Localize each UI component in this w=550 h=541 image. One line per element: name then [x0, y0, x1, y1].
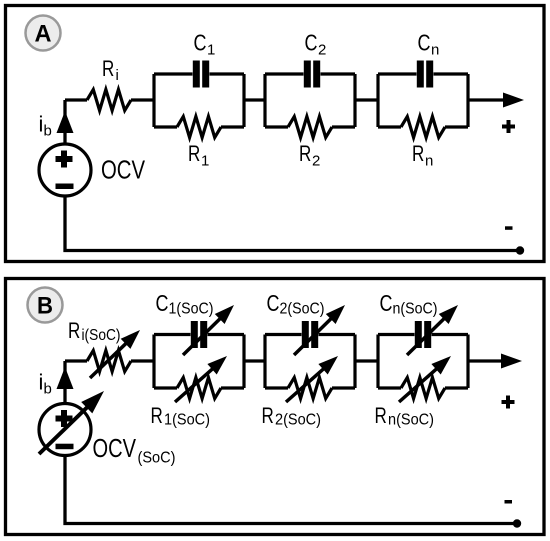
label R2(SoC): [262, 403, 322, 429]
wire OCV bottom return (B): [65, 456, 517, 524]
svg-text:2(SoC): 2(SoC): [275, 412, 321, 429]
label C2(SoC): [267, 290, 325, 318]
resistor R1(SoC): [177, 378, 221, 399]
output wire positive terminal (A): [468, 98, 505, 101]
label Rn(SoC): [375, 403, 435, 429]
variable arrow through R1(SoC): [175, 356, 227, 402]
svg-text:b: b: [44, 123, 52, 140]
resistor Rn: [401, 117, 445, 138]
svg-text:R: R: [412, 141, 424, 166]
current arrow ib (B): [57, 367, 74, 389]
svg-text:R: R: [68, 318, 80, 343]
RC block n loop (panel B): [378, 335, 468, 389]
wire Ri(SoC) to RC block 1 (B): [131, 359, 154, 362]
wire OCV top to node: [63, 100, 66, 144]
svg-text:1(SoC): 1(SoC): [164, 412, 210, 429]
svg-text:1: 1: [201, 152, 209, 169]
resistor R2: [288, 117, 332, 138]
output wire positive terminal (B): [468, 359, 503, 362]
svg-text:R: R: [102, 56, 114, 81]
RC block 1 loop (panel B): [154, 335, 244, 389]
minus terminal label (A): [505, 226, 513, 230]
node dot negative terminal (A): [516, 246, 524, 254]
capacitor C2(SoC): [302, 321, 318, 348]
variable arrow through Ri(SoC): [90, 330, 140, 378]
svg-text:C: C: [194, 30, 207, 56]
minus terminal label (B): [505, 500, 513, 504]
wire OCV bottom return (A): [65, 196, 520, 251]
resistor Ri: [87, 90, 131, 111]
svg-text:R: R: [375, 403, 387, 428]
label OCV(SoC): [93, 433, 176, 467]
voltage source OCV: [39, 144, 91, 196]
panel label B badge: [28, 288, 63, 323]
resistor Ri(SoC): [87, 351, 131, 372]
wire block2 to blockn (B): [355, 359, 378, 362]
current arrow ib: [57, 111, 74, 133]
label C1: [194, 30, 216, 59]
svg-text:B: B: [37, 293, 53, 320]
wire Ri to RC block 1: [131, 98, 154, 101]
svg-text:(SoC): (SoC): [138, 450, 176, 467]
RC block n loop (panel A): [378, 74, 468, 127]
svg-text:n(SoC): n(SoC): [388, 412, 434, 429]
variable arrow through OCV(SoC): [39, 391, 104, 454]
RC block 2 loop (panel A): [265, 74, 355, 127]
label R1: [188, 141, 209, 169]
svg-text:i: i: [116, 67, 119, 84]
variable arrow through Rn(SoC): [399, 356, 451, 402]
svg-text:C: C: [305, 30, 318, 56]
label Cn(SoC): [380, 290, 438, 318]
svg-text:2(SoC): 2(SoC): [280, 301, 325, 318]
svg-text:R: R: [262, 403, 274, 428]
svg-text:n: n: [425, 152, 433, 169]
resistor R1: [177, 117, 221, 138]
label OCV: [101, 155, 146, 185]
label Rn: [412, 141, 433, 169]
svg-text:C: C: [267, 290, 280, 316]
wire node to Ri: [65, 98, 87, 101]
wire node to Ri(SoC): [65, 359, 87, 362]
svg-text:1: 1: [207, 41, 215, 58]
capacitor C2: [304, 61, 320, 88]
svg-text:b: b: [44, 381, 52, 398]
resistor R2(SoC): [288, 378, 332, 399]
label Ri(SoC): [68, 318, 121, 344]
variable arrow through Cn(SoC): [407, 305, 458, 355]
svg-text:n(SoC): n(SoC): [393, 301, 438, 318]
svg-text:2: 2: [312, 152, 320, 169]
label R2: [299, 141, 320, 169]
label C2: [305, 30, 327, 59]
svg-text:C: C: [418, 30, 431, 56]
label C1(SoC): [156, 290, 214, 318]
capacitor Cn: [417, 61, 433, 88]
wire block2 to blockn: [355, 98, 378, 101]
label R1(SoC): [151, 403, 211, 429]
variable arrow through C1(SoC): [183, 305, 234, 355]
voltage source OCV(SoC): [39, 404, 91, 456]
svg-text:R: R: [299, 141, 311, 166]
svg-text:R: R: [151, 403, 163, 428]
RC block 1 loop (panel A): [154, 74, 244, 127]
plus terminal label (B): [502, 396, 515, 409]
capacitor C1(SoC): [191, 321, 207, 348]
svg-text:C: C: [380, 290, 393, 316]
svg-text:R: R: [188, 141, 200, 166]
svg-text:A: A: [35, 21, 52, 48]
resistor Rn(SoC): [401, 378, 445, 399]
wire OCV top to node (B): [63, 361, 66, 404]
panel B frame: [6, 279, 545, 535]
svg-text:C: C: [156, 290, 169, 316]
output arrowhead (B): [501, 354, 522, 369]
label Ri: [102, 56, 119, 84]
variable arrow through C2(SoC): [294, 305, 345, 355]
label Cn: [418, 30, 440, 59]
capacitor Cn(SoC): [415, 321, 431, 348]
label ib: [39, 112, 52, 140]
capacitor C1: [193, 61, 209, 88]
node dot negative terminal (B): [513, 519, 521, 527]
label ib (B): [39, 370, 52, 398]
svg-text:OCV: OCV: [93, 433, 137, 463]
variable arrow through R2(SoC): [286, 356, 338, 402]
svg-text:OCV: OCV: [101, 155, 146, 185]
RC block 2 loop (panel B): [265, 335, 355, 389]
svg-text:i(SoC): i(SoC): [82, 327, 121, 344]
svg-text:2: 2: [318, 41, 326, 58]
output arrowhead (A): [503, 93, 524, 108]
wire block1 to block2 (B): [244, 359, 265, 362]
plus terminal label (A): [502, 120, 515, 133]
svg-text:1(SoC): 1(SoC): [169, 301, 214, 318]
panel label A badge: [26, 16, 61, 51]
svg-text:n: n: [431, 41, 439, 58]
wire block1 to block2: [244, 98, 265, 101]
panel A frame: [6, 6, 545, 262]
